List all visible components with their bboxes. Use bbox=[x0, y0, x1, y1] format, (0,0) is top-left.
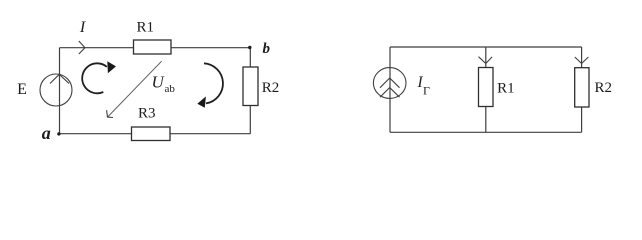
svg-text:R1: R1 bbox=[497, 81, 515, 97]
wire top-left segment (left circuit) bbox=[60, 47, 134, 49]
svg-text:a: a bbox=[42, 123, 51, 143]
wire left side (left circuit) bbox=[59, 48, 61, 134]
wire R2 branch upper (right circuit) bbox=[581, 47, 583, 68]
wire R1 branch upper (right circuit) bbox=[485, 47, 487, 68]
svg-text:b: b bbox=[263, 41, 271, 57]
svg-text:U: U bbox=[152, 73, 166, 92]
wire top (right circuit) bbox=[390, 46, 582, 48]
wire top-right segment (left circuit) bbox=[171, 47, 250, 49]
svg-text:Γ: Γ bbox=[423, 83, 430, 97]
node a bbox=[57, 132, 60, 135]
wire bottom (right circuit) bbox=[390, 131, 582, 133]
resistor R1 (right circuit) bbox=[479, 68, 494, 107]
svg-text:R3: R3 bbox=[138, 105, 156, 121]
svg-text:ab: ab bbox=[165, 83, 176, 95]
node b bbox=[248, 46, 251, 49]
arrow into R1 (right circuit) bbox=[479, 57, 493, 64]
wire right-lower (left circuit) bbox=[249, 106, 251, 134]
mesh current arrow 2 (head) bbox=[197, 96, 206, 107]
wire R1 branch lower (right circuit) bbox=[485, 107, 487, 133]
wire right side (left circuit) bbox=[249, 48, 251, 67]
arrow into R2 (right circuit) bbox=[575, 57, 589, 64]
wire bottom-right segment (left circuit) bbox=[170, 133, 250, 135]
voltage arrow Uab (head) bbox=[107, 110, 113, 117]
wire bottom-left segment (left circuit) bbox=[59, 133, 132, 135]
wire R2 branch lower (right circuit) bbox=[581, 107, 583, 132]
resistor R2 (right circuit) bbox=[575, 68, 589, 107]
svg-text:R2: R2 bbox=[595, 80, 613, 96]
mesh current arrow 1 (head) bbox=[107, 61, 116, 73]
current source chevron upper bbox=[380, 78, 400, 88]
resistor R3 (left circuit) bbox=[132, 127, 171, 141]
source E arrow chevron bbox=[50, 74, 69, 83]
svg-text:E: E bbox=[17, 81, 27, 98]
source E circle bbox=[40, 74, 72, 106]
current source I gamma circle bbox=[373, 68, 406, 99]
resistor R2 (left circuit) bbox=[243, 67, 258, 106]
current source chevron lower bbox=[380, 88, 400, 98]
wire left side (right circuit) bbox=[389, 47, 391, 132]
svg-text:R2: R2 bbox=[262, 80, 280, 96]
mesh current arrow 2 (arc) bbox=[204, 63, 223, 103]
mesh current arrow 1 (arc) bbox=[82, 63, 107, 93]
svg-text:I: I bbox=[79, 19, 86, 36]
voltage arrow Uab (shaft) bbox=[108, 61, 162, 117]
svg-text:R1: R1 bbox=[136, 20, 154, 36]
resistor R1 (left circuit) bbox=[134, 40, 172, 54]
current arrow I on top wire bbox=[79, 41, 85, 54]
